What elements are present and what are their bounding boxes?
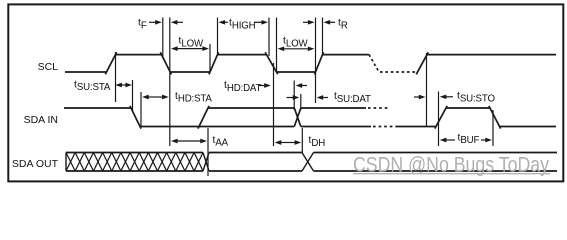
svg-text:tBUF: tBUF [458,133,480,147]
svg-text:SCL: SCL [38,61,59,73]
svg-text:tSU:STO: tSU:STO [457,91,495,105]
svg-text:tDH: tDH [309,135,326,149]
svg-text:tLOW: tLOW [179,36,204,50]
svg-text:tHD:DAT: tHD:DAT [224,80,262,94]
svg-text:SDA OUT: SDA OUT [12,158,59,170]
svg-text:tHIGH: tHIGH [229,18,256,32]
svg-text:tSU:STA: tSU:STA [74,79,111,93]
svg-text:tHD:STA: tHD:STA [175,91,212,105]
svg-text:tLOW: tLOW [283,36,308,50]
svg-text:tAA: tAA [213,135,229,149]
svg-text:SDA IN: SDA IN [24,114,58,126]
svg-text:tSU:DAT: tSU:DAT [334,91,371,105]
